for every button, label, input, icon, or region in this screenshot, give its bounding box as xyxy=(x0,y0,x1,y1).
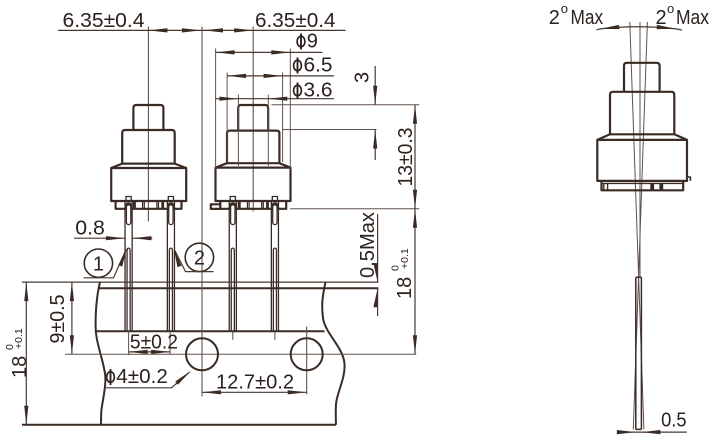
svg-text:6.5: 6.5 xyxy=(304,55,333,77)
hole centerline xyxy=(65,353,416,355)
label 1 shelf and leader xyxy=(84,250,127,278)
svg-text:0.5: 0.5 xyxy=(661,410,687,432)
dim 0.8 line xyxy=(74,237,152,239)
dim 13±0.3 line xyxy=(414,105,416,209)
hole 2 axis xyxy=(306,327,308,395)
pin tip shelf line xyxy=(96,330,325,332)
svg-text:6.35±0.4: 6.35±0.4 xyxy=(255,10,336,32)
middle cap xyxy=(227,131,279,164)
svg-text:2: 2 xyxy=(549,7,560,29)
arrow right toward hole axis xyxy=(182,28,201,32)
dim 5±0.2 line xyxy=(129,351,171,353)
panel top surface xyxy=(99,287,379,289)
ext line cap top xyxy=(272,104,420,106)
svg-text:6.35±0.4: 6.35±0.4 xyxy=(63,10,145,32)
svg-text:Max: Max xyxy=(676,7,709,29)
svg-text:18: 18 xyxy=(394,277,416,299)
dim 18 left line xyxy=(25,282,27,425)
svg-text:o: o xyxy=(667,1,674,16)
text 2 Max left xyxy=(549,1,603,29)
dim 0.5 bottom xyxy=(619,431,687,433)
arrow at left centerline xyxy=(148,28,167,32)
label 2 shelf and leader xyxy=(175,250,214,272)
dim 3 upper line+arrow xyxy=(374,66,376,105)
base bar right xyxy=(266,202,269,209)
side base bar 2 xyxy=(659,183,663,190)
pin 4 xyxy=(271,197,278,340)
phi3.6 text xyxy=(294,80,333,102)
ext line mid cap top xyxy=(283,129,377,131)
svg-text:18: 18 xyxy=(9,356,31,378)
dim phi4 text xyxy=(107,366,168,388)
side base xyxy=(602,181,684,190)
panel left break curve xyxy=(96,282,106,425)
base lines right pair xyxy=(262,202,264,209)
phi6.5 dim line xyxy=(227,75,334,77)
svg-text:0.5Max: 0.5Max xyxy=(357,212,379,278)
svg-text:13±0.3: 13±0.3 xyxy=(395,128,417,187)
side bevel xyxy=(597,134,687,140)
base bar left xyxy=(133,202,136,209)
panel bottom xyxy=(22,424,336,426)
hole 1 xyxy=(186,338,218,370)
base bar left xyxy=(238,202,241,209)
side axis xyxy=(639,22,641,277)
base tab left xyxy=(211,204,221,209)
side base bar 1 xyxy=(650,183,654,190)
seating plane line (0.5 upper) xyxy=(22,281,379,283)
text 18 +0.1/0 left xyxy=(4,328,31,378)
centerline left switch xyxy=(147,27,149,222)
base outline xyxy=(116,201,182,209)
pin 2 xyxy=(167,197,174,332)
angle arc xyxy=(597,27,682,30)
side body xyxy=(597,140,687,181)
base outline xyxy=(220,201,286,209)
hole 2 xyxy=(291,338,323,370)
cap bottom flange line xyxy=(122,163,175,165)
phi6.5 text xyxy=(294,55,333,77)
phi9 dim line xyxy=(216,51,323,53)
base bar right xyxy=(161,202,164,209)
phi9 text xyxy=(297,31,318,53)
dim 12.7 line xyxy=(202,391,307,393)
svg-text:Max: Max xyxy=(571,7,604,29)
svg-text:9±0.5: 9±0.5 xyxy=(47,295,69,344)
svg-text:0: 0 xyxy=(390,265,402,271)
cap bottom flange line xyxy=(227,162,279,164)
side middle cap xyxy=(610,92,674,135)
arrow at middle centerline xyxy=(234,28,253,32)
phi3.6 dim line xyxy=(216,98,334,100)
phi4 shelf and leader xyxy=(104,372,189,388)
phi9 extension lines xyxy=(216,49,291,170)
svg-text:12.7±0.2: 12.7±0.2 xyxy=(216,372,294,394)
side cap bottom line xyxy=(610,133,674,135)
bevel diagonals xyxy=(216,163,291,167)
panel right break curve xyxy=(322,282,344,425)
side nub xyxy=(687,177,690,181)
phi3.6 extension lines xyxy=(238,95,268,167)
ext line base bottom xyxy=(290,208,419,210)
dim 5±0.2 ext lines xyxy=(129,331,171,355)
middle cap xyxy=(122,130,175,164)
pin 3 xyxy=(229,197,236,340)
top cap xyxy=(238,105,268,130)
svg-text:3: 3 xyxy=(352,72,374,83)
dim 0.5Max lower arrow xyxy=(377,288,379,316)
svg-text:4±0.2: 4±0.2 xyxy=(116,366,168,388)
dim 3 lower line+arrow xyxy=(374,130,376,161)
base lines right pair xyxy=(157,202,159,209)
top cap xyxy=(133,105,163,130)
bevel diagonals xyxy=(111,164,186,168)
svg-text:9: 9 xyxy=(307,31,318,53)
svg-text:2: 2 xyxy=(656,7,667,29)
base lines left pair xyxy=(143,202,145,209)
svg-text:0: 0 xyxy=(4,344,16,350)
svg-text:0.8: 0.8 xyxy=(75,218,105,240)
centerline middle switch xyxy=(252,27,254,212)
dim 18 right line xyxy=(414,209,416,354)
svg-text:o: o xyxy=(561,1,568,16)
body xyxy=(111,168,186,201)
body xyxy=(216,168,291,201)
svg-text:2: 2 xyxy=(194,248,205,270)
svg-text:5±0.2: 5±0.2 xyxy=(130,332,178,354)
side top cap xyxy=(624,63,660,92)
svg-text:3.6: 3.6 xyxy=(304,80,333,102)
text 18 +0.1/0 right xyxy=(390,248,416,299)
hole 1 axis xyxy=(201,27,203,397)
label circle 2 xyxy=(185,243,213,271)
dim line 6.35 left xyxy=(58,29,346,31)
base lines left pair xyxy=(247,202,249,209)
phi6.5 extension lines xyxy=(227,73,283,163)
label circle 1 xyxy=(84,249,112,277)
dim 9±0.5 line xyxy=(71,282,73,354)
tilt line minus2 xyxy=(633,22,647,430)
pin 1 xyxy=(125,197,132,332)
side base small box xyxy=(604,183,608,190)
side pin xyxy=(636,277,642,429)
text 2 Max right xyxy=(656,1,710,29)
tilt line plus2 xyxy=(630,22,644,430)
svg-text:1: 1 xyxy=(93,254,104,276)
side base inner line xyxy=(602,182,684,184)
arrow left of second dim xyxy=(204,28,223,32)
dim 0.5Max upper arrow xyxy=(377,214,379,282)
